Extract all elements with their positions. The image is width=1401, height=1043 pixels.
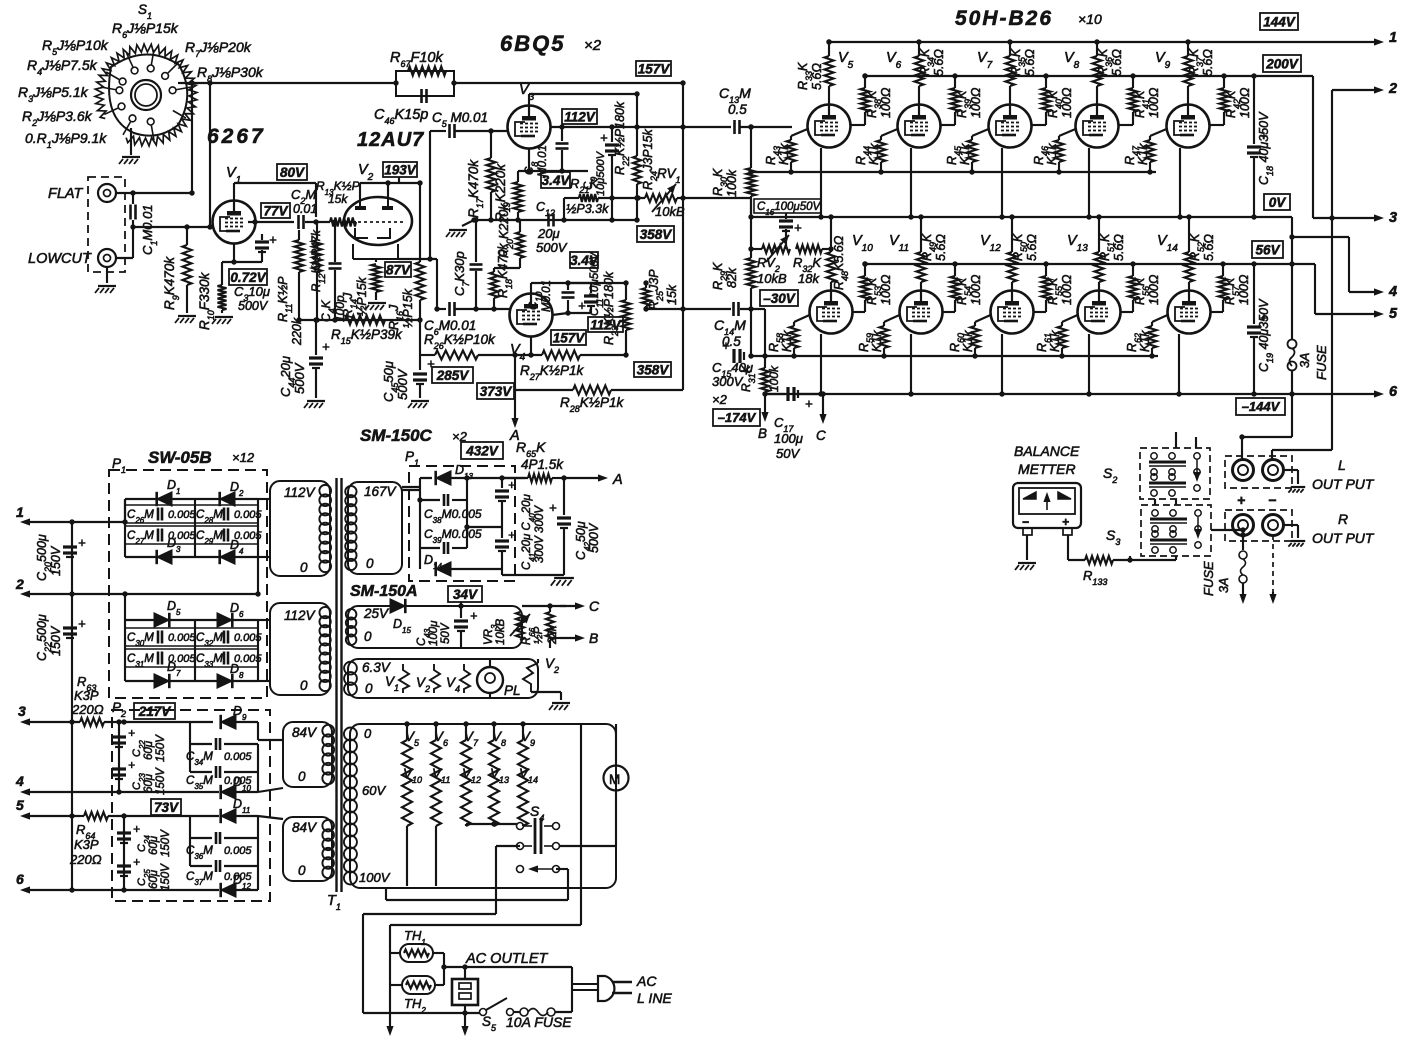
switch S4 label [530,803,544,823]
fuse 3A [1288,340,1297,371]
C10 label [528,280,553,312]
diode D10 [221,772,258,799]
svg-text:L: L [1338,457,1346,473]
svg-text:–144V: –144V [1242,399,1281,414]
resistor label R7 [185,39,252,59]
line 2 arrow [15,576,125,598]
resistor R27 [542,351,580,360]
R67 label [390,50,443,69]
transformer core [337,478,342,892]
snubber C35 [186,744,258,791]
voltage box 112V [562,109,597,124]
svg-text:100Ω: 100Ω [1060,274,1074,305]
ground [549,703,570,710]
C2 label [291,187,317,216]
R20 label [497,203,515,258]
svg-text:K1k: K1k [958,143,972,165]
resistor R57 [1211,261,1228,312]
svg-text:77V: 77V [263,203,288,218]
svg-text:10kB: 10kB [495,618,507,645]
T1 label [327,893,341,912]
arrow out 4 [1374,284,1397,300]
wire V2 plates [360,177,420,198]
svg-text:3.4V: 3.4V [542,173,571,188]
resistor R10 [218,262,227,313]
tube V3 [508,106,551,149]
svg-text:SM-150C: SM-150C [360,426,433,445]
fuse arrow [1239,583,1246,604]
heater V9/V14 [518,721,538,826]
wire S1 to bus [178,82,210,84]
svg-text:K3P: K3P [74,837,99,852]
wire out2 vert [1329,90,1334,450]
svg-text:20μ: 20μ [537,226,560,241]
voltage box 144V [1260,13,1298,30]
AC outlet line [441,964,572,969]
ground [119,157,140,164]
D14 label [424,553,442,571]
svg-text:K1k: K1k [870,330,884,352]
C40 C41 label [521,493,546,570]
C14 label [714,317,746,349]
node C arrow [816,394,827,443]
wire line3 [104,719,213,724]
voltage box 0V [1264,194,1290,210]
resistor R34 [915,39,924,104]
R19 label [493,163,512,222]
node C out [522,598,600,614]
wire 3.4V link [568,282,598,284]
R output label [1312,511,1375,546]
grid bus upper [748,169,1156,174]
R66 label [521,624,559,645]
svg-text:60μ: 60μ [148,869,160,889]
C3 label [234,284,270,313]
svg-text:6.3V: 6.3V [362,660,392,675]
AC loop right [571,967,573,1012]
wire 373V row [515,389,573,391]
voltage box 373V [477,383,514,399]
R output jack - [1263,515,1284,536]
ground [175,316,196,323]
V12 cathode wire [999,334,1004,397]
C9 label [583,150,607,196]
resistor R28 [573,386,611,395]
voltage box 358V b [634,362,671,377]
resistor R16 [416,262,425,320]
wire V3 screen [550,124,637,129]
resistor R59 [880,315,900,359]
svg-text:0: 0 [300,560,308,575]
resistor R43 [787,129,808,175]
V2 label [358,162,374,183]
capacitor C20 [63,535,86,557]
wire to L plus [1239,434,1292,460]
S1 label [138,2,152,21]
arrow out 1 [1374,30,1397,46]
svg-text:0.01: 0.01 [293,202,317,216]
node B out [550,630,598,646]
R42 label [1224,87,1252,118]
resistor R29 [747,249,756,309]
FLAT jack [98,184,116,202]
wire left drop [362,914,364,1013]
resistor R14 [372,264,381,300]
R62 label [1125,330,1152,352]
TH1 wires [390,925,444,967]
voltage box 432V [461,442,503,459]
svg-text:112V: 112V [284,485,317,500]
S4 wire down [496,846,520,914]
resistor R49 [917,214,926,290]
svg-text:+: + [578,298,586,313]
C15 label [712,360,753,407]
resistor label R1 [25,130,107,150]
resistor R15 [345,316,385,325]
R40 label [1046,87,1074,118]
svg-text:5.6Ω: 5.6Ω [932,49,946,76]
switch S2 [1140,448,1210,499]
resistor R64 [84,812,108,820]
R33 label [796,62,824,90]
svg-text:60μ: 60μ [148,835,160,855]
R11 label [276,276,304,346]
C43 label [416,620,452,646]
winding 112V b [258,603,331,695]
voltage box 73V [151,799,181,815]
svg-text:6: 6 [16,871,24,887]
svg-text:+: + [508,528,515,542]
svg-text:PL: PL [504,683,521,698]
R output ground [1283,525,1305,547]
wire RV1 right [677,195,686,200]
svg-text:50V: 50V [440,622,452,644]
svg-text:150V: 150V [155,734,167,762]
svg-text:432V: 432V [465,443,499,458]
V7 label [977,50,993,71]
wire R30 to bus [750,198,752,217]
heater V7/V12 [461,721,481,826]
heater V5/V10 [402,721,422,886]
tube V10 [810,291,853,334]
RV1 label [655,166,685,219]
wire V1 out [248,219,294,224]
svg-text:100Ω: 100Ω [969,87,983,118]
svg-text:0.005: 0.005 [168,632,196,644]
svg-text:50V: 50V [776,446,800,461]
R15 label [331,327,403,346]
L output box [1225,456,1292,488]
voltage box 87V [385,262,411,277]
wire R28 right [611,309,683,390]
D13 label [455,463,473,481]
svg-text:C: C [816,428,826,443]
svg-text:K1k: K1k [867,143,881,165]
resistor R60 [971,315,991,359]
line 4 arrow [15,773,219,796]
tube V14 [1168,291,1211,334]
R47 label [1123,143,1150,165]
wire V3 cathode [518,148,588,174]
capacitor C12 [549,214,554,227]
svg-text:112V: 112V [590,317,622,332]
svg-text:AC OUTLET: AC OUTLET [465,951,549,967]
wire V4 screen [552,310,571,315]
C44 label [278,356,307,397]
cathode bus [296,317,422,322]
12AU7 label [357,129,424,151]
V12 label [980,233,1001,254]
svg-text:100Ω: 100Ω [879,274,893,305]
svg-text:5.6Ω: 5.6Ω [1025,234,1039,261]
capacitor C13 [735,120,740,134]
svg-text:217V: 217V [138,704,172,719]
svg-text:100Ω: 100Ω [969,274,983,305]
capacitor C8 [556,127,569,171]
svg-text:10kB: 10kB [655,204,685,219]
P2 label [112,700,126,719]
A line [402,478,432,487]
bus 200V [862,73,1313,78]
svg-text:−: − [1268,492,1276,508]
tube V8 [1076,105,1119,148]
svg-text:100μ: 100μ [428,620,440,646]
S1 ground wire [130,128,132,155]
R45 label [945,143,972,165]
svg-text:358V: 358V [640,227,673,242]
resistor R47 [1146,129,1167,175]
resistor R12 [313,222,322,320]
svg-text:150V: 150V [160,863,172,891]
line 5 arrow [16,797,84,820]
arrow out 2 [1332,81,1397,97]
svg-text:60μ: 60μ [143,773,155,793]
voltage box 200V [1263,55,1301,72]
svg-text:0.005: 0.005 [234,509,262,521]
svg-text:3A: 3A [1217,578,1231,593]
svg-text:73V: 73V [154,800,179,815]
R24 label [641,129,659,190]
bottom line [363,1010,480,1015]
L output jack - [1263,460,1284,481]
C46 label [374,107,428,126]
arrow out 3 [1374,210,1397,226]
resistor R20 [516,220,524,268]
wire S2-S3 link [1155,499,1176,505]
node A out [552,472,623,488]
voltage box 112V b [588,317,623,332]
resistor R16 feed [417,180,422,262]
capacitor C2 [299,215,304,229]
resistor R48 [827,214,836,290]
fuse 3A wire [1289,237,1294,340]
svg-text:6BQ5: 6BQ5 [500,31,565,56]
svg-text:+: + [1062,515,1069,529]
capacitor C45 [413,320,435,398]
capacitor C43 [454,602,477,648]
capacitor C9 [600,127,619,223]
FLAT label [48,186,84,202]
svg-text:L INE: L INE [637,990,672,1006]
R27 label [520,363,585,382]
voltage box 3.4V b [570,252,599,268]
R43 label [764,143,791,165]
R41 label [1133,87,1161,118]
voltage box -144V [1236,398,1285,415]
svg-text:3.4V: 3.4V [570,253,599,268]
capacitor C7 [470,217,483,309]
C39 label [424,527,482,545]
tube V6 [898,105,941,148]
wire R21 to RV1 [598,195,645,200]
svg-text:0: 0 [298,769,306,784]
tube V13 [1078,291,1121,334]
svg-text:–174V: –174V [718,410,757,425]
svg-text:373V: 373V [480,384,513,399]
resistor R50 [1008,214,1017,290]
tube V2 [344,197,412,259]
svg-text:+: + [128,726,135,740]
svg-text:3: 3 [18,703,26,719]
pot RV2 [762,235,790,262]
svg-text:0: 0 [298,863,306,878]
snubber C38 [420,478,467,506]
svg-text:500V: 500V [587,522,601,553]
svg-text:60V: 60V [362,783,386,798]
TH2 wires [390,953,444,985]
svg-text:B: B [589,630,598,646]
wire S4 row [466,821,517,826]
fuse 3A output wire [1240,532,1245,550]
svg-text:×10: ×10 [1078,11,1102,27]
tube V4 [510,294,553,337]
R55 label [1046,274,1074,305]
svg-text:+: + [794,220,802,235]
wire V2 to C6 [398,259,446,312]
R21 label [566,176,609,216]
wire S3 out [1211,527,1246,532]
svg-text:500V: 500V [536,240,568,255]
arrow out 6 [1374,384,1398,400]
diode D15 [390,599,411,635]
V13 label [1067,233,1088,254]
balance meter label [1014,443,1080,477]
bus 144V line1 [826,39,1374,44]
svg-text:22k: 22k [547,624,559,645]
R22 label [613,101,631,175]
svg-text:0: 0 [364,726,372,741]
R output jack + [1233,515,1254,536]
resistor R53 [853,261,870,312]
V8 cathode wire [1086,148,1091,220]
V9 label [1155,50,1171,71]
svg-text:+: + [805,396,813,411]
wire V4 cathode [530,336,532,355]
svg-text:100Ω: 100Ω [1147,274,1161,305]
V3 label [519,82,535,103]
C16 box [754,199,821,217]
capacitor C4 [329,219,342,320]
capacitor C11 [568,283,598,313]
voltage box 157V b [551,330,586,345]
heater V8/V13 [489,721,509,826]
svg-text:10kB: 10kB [757,271,787,286]
svg-text:+: + [549,500,557,515]
svg-text:84V: 84V [292,820,318,835]
ground [365,303,386,310]
resistor R61 [1058,315,1078,359]
C8 label [524,145,549,177]
svg-text:+: + [322,339,330,354]
R36 label [1096,48,1124,76]
svg-text:25V: 25V [363,606,390,621]
V4 label [510,342,526,363]
svg-text:100Ω: 100Ω [1237,274,1251,305]
capacitor C40 [467,527,515,569]
svg-text:50H-B26: 50H-B26 [955,7,1053,30]
V5 cathode wire [818,148,823,220]
box SM-150C dashed [409,466,515,581]
resistor R52 [1185,214,1194,290]
R39 label [955,87,983,118]
switch S4 row3 [517,865,560,872]
C19 label [1257,298,1275,372]
L output jack + [1233,460,1254,481]
svg-text:+: + [1237,492,1245,508]
svg-text:100k: 100k [725,169,739,197]
bridge link wires [125,557,261,620]
wire C1 branch [132,193,134,227]
voltage box 217V [134,703,175,719]
svg-text:112V: 112V [284,608,317,623]
switch S3 [1141,505,1211,556]
R56 label [1133,274,1161,305]
capacitor C10 [562,280,575,313]
R53 label [865,274,893,305]
line 6 arrow [16,871,219,894]
svg-text:15k: 15k [328,192,348,206]
C45 label [381,361,410,402]
LOWCUT label [28,251,92,267]
tube V1 [213,201,256,244]
svg-text:82k: 82k [725,267,739,288]
bias line RV2 [748,198,762,252]
motor M [604,766,629,791]
V14 label [1157,233,1178,254]
R29 label [711,262,739,290]
voltage box 34V [448,586,482,602]
svg-text:METTER: METTER [1018,461,1076,477]
svg-text:4: 4 [1388,284,1397,300]
svg-text:285V: 285V [436,368,470,383]
svg-text:6267: 6267 [207,125,266,148]
left bus [69,522,74,893]
svg-text:+: + [508,478,515,492]
svg-text:167V: 167V [364,484,398,499]
resistor R9 [183,224,192,313]
svg-text:+: + [133,822,140,836]
resistor R39 [941,73,960,125]
snubber C39 [417,497,469,554]
svg-text:2: 2 [1388,81,1397,97]
svg-text:LOWCUT: LOWCUT [28,251,92,267]
svg-text:193V: 193V [384,162,417,177]
resistor R33 [825,39,834,104]
wire S2 feeds [1176,432,1196,448]
wire C5 to V3 [455,128,508,133]
vertical 157V feed [680,80,685,309]
V7 cathode wire [999,148,1004,220]
